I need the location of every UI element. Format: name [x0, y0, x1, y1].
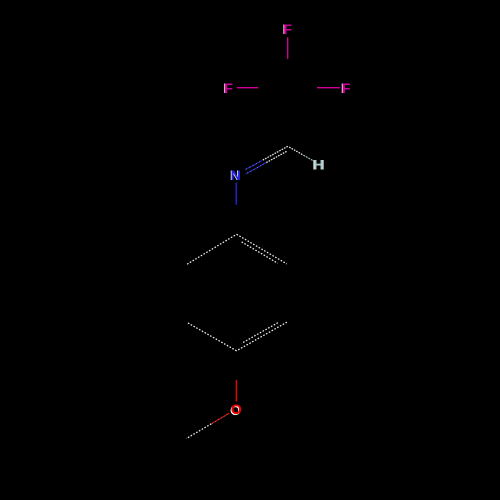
atom label F2 (left fluorine): [223, 80, 233, 96]
wire: ring bond T-UR inner (dotted): [242, 242, 278, 263]
wire: bond F2-C1 (horizontal, fluorine half): [237, 87, 258, 89]
svg-text:O: O: [231, 401, 242, 417]
wire: C2-H bond, carbon half (dotted): [289, 147, 303, 155]
atom label O: [230, 401, 242, 418]
wire: bond N-ring (vertical, nitrogen half): [235, 183, 237, 205]
wire: ring bond T-UR outer (dotted): [237, 234, 287, 264]
wire: ring bond LR-B inner (dotted): [242, 323, 278, 344]
wire: ring bond UL-T (dotted): [187, 234, 237, 264]
atom label H: [313, 156, 325, 172]
svg-text:N: N: [231, 167, 241, 183]
wire: C2=N double bond main line, carbon half (dotted): [262, 146, 288, 160]
svg-text:H: H: [313, 156, 323, 172]
wire: bond O-CH3, carbon half (dotted): [186, 424, 211, 439]
atom label F1 (top fluorine): [283, 21, 293, 37]
svg-text:F: F: [224, 80, 233, 96]
wire: ring bond B-LL (dotted): [187, 323, 236, 351]
wire: bond F1-C1 (vertical, fluorine half): [287, 37, 289, 59]
wire: C2-H bond, hydrogen half (teal): [303, 155, 313, 161]
wire: C2=N double bond inner line, nitrogen half: [246, 163, 267, 174]
wire: ring bond LR-B outer (dotted): [237, 322, 287, 351]
wire: C2=N double bond main line, nitrogen half (blue dashes): [245, 161, 262, 170]
atom label F3 (right fluorine): [341, 80, 351, 96]
atom label N: [230, 167, 241, 183]
wire: bond F3-C1 (horizontal, fluorine half): [317, 87, 340, 89]
wire: bond ring-O (vertical, oxygen half): [235, 380, 237, 402]
svg-text:F: F: [342, 80, 351, 96]
svg-text:F: F: [283, 21, 292, 37]
wire: bond O-CH3, oxygen half (red dashes): [211, 413, 229, 424]
wire: C2=N double bond inner line, carbon half: [266, 151, 287, 162]
